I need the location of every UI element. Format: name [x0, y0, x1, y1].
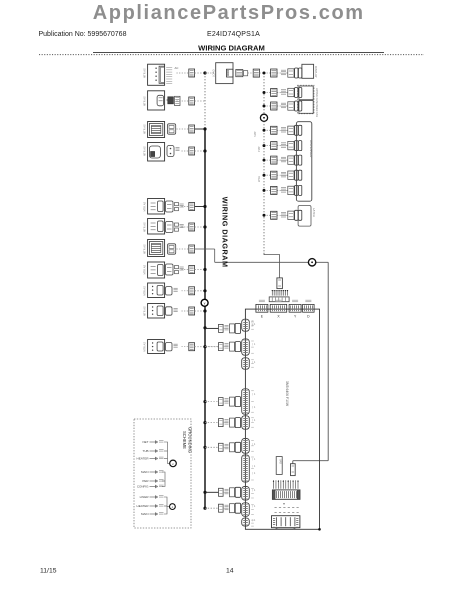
connector: board edge header P10	[242, 518, 254, 526]
component: fan module lower	[299, 101, 319, 118]
svg-text:MTR AS: MTR AS	[143, 306, 147, 316]
svg-text:3M5 6406 F10W: 3M5 6406 F10W	[285, 381, 289, 407]
svg-text:MTR AS: MTR AS	[143, 202, 147, 212]
wire: dispenser motor to left bus	[195, 206, 205, 208]
svg-text:WIRING DIAGRAM: WIRING DIAGRAM	[198, 43, 265, 52]
net labels beside right bus	[253, 131, 261, 182]
ground lead: CONFIG	[137, 485, 164, 489]
svg-text:Publication No: 5995670768: Publication No: 5995670768	[39, 31, 127, 38]
component: fuse (right)	[291, 464, 296, 476]
component: diverter motor	[143, 340, 178, 354]
connector: board edge header P8	[242, 487, 254, 501]
component: pump cluster box	[296, 122, 312, 202]
model number E24ID74QPS1A	[207, 31, 260, 38]
connector chain: sump pump motor	[271, 125, 302, 135]
wire: heater relay to left bus	[195, 248, 215, 250]
wire: vent assembly to left bus	[195, 226, 205, 228]
terminal for vent assembly	[189, 223, 195, 231]
connector cluster: signal harness	[219, 503, 241, 513]
wire: right bus to door latch unit	[264, 214, 288, 216]
wire: left bus to pressure sensor	[205, 422, 219, 424]
connector chain: display harness	[271, 68, 302, 78]
ground lead: PER	[142, 479, 163, 483]
wire: door switch to left bus	[195, 100, 205, 102]
terminal for latch assembly	[189, 147, 195, 155]
connector: board edge header P3	[242, 358, 254, 369]
title WIRING DIAGRAM	[198, 43, 265, 52]
connector: membrane pins	[273, 480, 299, 489]
wire: vent assembly lead	[182, 226, 189, 228]
svg-text:DISPENSER: DISPENSER	[309, 140, 313, 158]
component: main control board outline	[245, 309, 319, 529]
wire: turbidity sensor to left bus	[195, 269, 205, 271]
connector chain: condensate pump	[271, 101, 302, 111]
svg-text:MTR AS: MTR AS	[143, 342, 147, 352]
footer page date 11/15	[40, 568, 57, 575]
connector cluster: pressure sensor	[219, 418, 241, 428]
connector chain: drying fan	[271, 88, 302, 98]
wire: power cord assembly to left bus	[195, 72, 205, 74]
wire: right bus to drying fan	[264, 92, 288, 94]
wire: right bus to dispenser unit	[264, 189, 288, 191]
svg-text:14: 14	[226, 568, 234, 575]
connector cluster: flow meter	[219, 487, 241, 497]
connector: board edge header P2	[242, 339, 254, 355]
connector: board top header Y	[289, 300, 301, 318]
wire: left main bus (solid)	[204, 129, 206, 509]
label: vertical WIRING DIAGRAM	[221, 197, 230, 268]
component: varistor (left)	[276, 457, 282, 475]
svg-text:AppliancePartsPros.com: AppliancePartsPros.com	[93, 2, 365, 24]
terminal for turbidity sensor	[189, 266, 195, 274]
node: circle connector on long run	[308, 259, 315, 266]
node: circle connector on left bus	[201, 299, 208, 306]
terminal for inlet valve	[189, 307, 195, 315]
wire: terminal to right bus	[260, 72, 265, 74]
wire: heater relay lead	[177, 248, 189, 250]
grounding scheme box	[134, 419, 191, 528]
top dotted rule	[39, 54, 424, 56]
title underline	[93, 51, 384, 53]
connector: board edge header P1	[242, 319, 254, 331]
label: board left edge text	[251, 320, 255, 327]
wire: left bus to load box	[205, 72, 216, 74]
wire: left bus dashed upper segment	[204, 73, 206, 129]
terminal for heater relay	[189, 245, 195, 253]
ground lead: HEATER	[137, 504, 164, 508]
terminal for dispenser motor	[189, 203, 195, 211]
ground bus upper group	[162, 442, 170, 487]
connector: terminal strip above board	[269, 297, 289, 302]
svg-text:MAIN: MAIN	[141, 512, 149, 516]
wire: latch assembly lead	[182, 150, 189, 152]
component: vent assembly	[143, 219, 184, 235]
svg-text:MTR AS: MTR AS	[143, 124, 147, 134]
connector: board edge header P7	[242, 455, 254, 482]
svg-text:LATCH: LATCH	[312, 208, 316, 217]
wire: diverter motor to left bus	[195, 346, 219, 348]
ground lead: HEATER	[137, 457, 164, 461]
svg-text:LOWER FAN: LOWER FAN	[315, 102, 319, 117]
svg-text:MTR AS: MTR AS	[143, 96, 147, 106]
wire: dashed stubs	[275, 503, 299, 512]
component: main relay	[143, 122, 176, 138]
component: load box (junction box)	[211, 63, 233, 84]
footer page number 14	[226, 568, 234, 575]
wire: left bus to sensor harness	[205, 401, 219, 403]
svg-text:MTR AS: MTR AS	[143, 286, 147, 296]
svg-text:CONFIG: CONFIG	[137, 485, 149, 489]
svg-text:PER: PER	[142, 479, 149, 483]
wire: right bus to sump pump motor	[264, 129, 288, 131]
wire: drain valve lead	[182, 290, 189, 292]
svg-text:HEATER: HEATER	[137, 504, 150, 508]
svg-text:TUB: TUB	[143, 449, 149, 453]
terminal for drain valve	[189, 287, 195, 295]
component: door latch box	[298, 206, 316, 227]
connector: board top header E	[256, 300, 268, 318]
node: circle connector on right bus	[260, 114, 267, 121]
wire: outer loop bottom into board	[293, 461, 328, 464]
connector chain: water softener	[271, 170, 302, 180]
connector: board top header D	[303, 300, 315, 318]
wire: main relay to left bus	[195, 128, 205, 130]
component: inlet valve	[143, 304, 178, 319]
wire: left bus to thermistor	[205, 446, 219, 448]
terminal for power cord assembly	[189, 69, 195, 77]
connector chain: door latch unit	[271, 210, 302, 220]
svg-text:11/15: 11/15	[40, 568, 57, 575]
junction dots on left bus	[203, 71, 206, 509]
publication number	[39, 31, 127, 38]
terminal for diverter motor	[189, 343, 195, 351]
ground lead: MAIN	[141, 512, 164, 516]
ground node circle upper	[170, 460, 177, 467]
junction: board bottom-right corner	[318, 528, 321, 531]
svg-text:GROUNDING: GROUNDING	[188, 427, 193, 453]
component: power cord assembly	[143, 64, 179, 85]
connector: board edge header P4	[242, 389, 254, 414]
component: heater relay	[143, 240, 176, 257]
ground lead: NET	[143, 440, 164, 444]
connector cluster: sensor harness	[219, 397, 241, 407]
wire: inlet valve to left bus	[195, 310, 205, 312]
wire: right bus to wash pump motor	[264, 145, 288, 147]
ground lead: LINER	[140, 495, 164, 499]
component: line filter fuse F1	[277, 278, 283, 289]
svg-text:HEATER: HEATER	[137, 457, 150, 461]
svg-text:SCHEME: SCHEME	[182, 431, 187, 449]
svg-text:WSH: WSH	[257, 176, 261, 182]
wire: left bus to flow meter	[205, 491, 219, 493]
svg-text:MTR AS: MTR AS	[143, 146, 147, 156]
component: door switch	[143, 91, 180, 110]
connector: board edge header P9	[242, 503, 254, 517]
wire: right bus to condensate pump	[264, 105, 288, 107]
label: board vertical text	[285, 381, 289, 407]
wire: main relay lead	[177, 128, 189, 130]
wire: door switch lead	[177, 100, 189, 102]
wire: left bus to board feed L	[205, 327, 219, 329]
component: turbidity sensor	[143, 262, 184, 278]
component: latch assembly	[143, 143, 180, 162]
connector: pin fan	[272, 290, 288, 296]
connector: membrane header block	[272, 490, 300, 499]
connector: board edge header P5	[242, 416, 254, 429]
wire: turbidity sensor lead	[182, 269, 189, 271]
label: GROUNDING SCHEME	[182, 427, 192, 453]
svg-text:DISPLAY: DISPLAY	[314, 66, 318, 78]
svg-text:MTR AS: MTR AS	[143, 68, 147, 78]
ground lead: MAIN	[141, 470, 164, 474]
svg-text:MTR AS: MTR AS	[143, 222, 147, 232]
svg-text:MAIN: MAIN	[141, 470, 149, 474]
terminal: right of load box	[253, 69, 259, 77]
wire: left bus to signal harness	[205, 507, 219, 509]
svg-text:WIRING DIAGRAM: WIRING DIAGRAM	[221, 197, 230, 268]
component: fan module pair (dashed enclosure)	[297, 85, 314, 114]
svg-text:AC: AC	[175, 66, 179, 70]
connector cluster: thermistor	[219, 442, 241, 452]
wire: power cord assembly lead	[177, 72, 189, 74]
wire: drain valve to left bus	[195, 290, 205, 292]
svg-text:E24ID74QPS1A: E24ID74QPS1A	[207, 31, 260, 38]
connector chain: heat pump	[271, 155, 302, 165]
connector: board edge header P6	[242, 439, 254, 454]
junction dots on right bus	[263, 72, 266, 217]
svg-text:PMP: PMP	[257, 146, 261, 152]
wire: right bus to heat pump	[264, 159, 288, 161]
component: dispenser motor	[143, 199, 184, 215]
component: fan module upper	[299, 86, 319, 103]
wire: left bus to board feed N	[205, 346, 219, 348]
svg-text:NET: NET	[143, 440, 149, 444]
ground lead: TUB	[143, 449, 164, 453]
connector: bottom edge connector	[272, 516, 300, 530]
wire: load box to terminal	[248, 72, 254, 74]
wire: diverter motor lead	[182, 346, 189, 348]
wire: feed from relay row down to long run	[214, 249, 216, 262]
wire: dispenser motor lead	[182, 206, 189, 208]
wire: elbow from right bus down to fuse	[264, 253, 280, 278]
wire: long horizontal run to outer loop	[215, 261, 329, 263]
connector: board top header X	[270, 300, 287, 318]
wire: outer loop right side down	[327, 262, 329, 460]
component: display module box	[302, 64, 318, 78]
terminal for main relay	[189, 125, 195, 133]
wire: inlet valve lead	[182, 310, 189, 312]
watermark AppliancePartsPros.com	[93, 2, 365, 24]
svg-text:UPPER FAN: UPPER FAN	[315, 88, 319, 103]
svg-text:MTR AS: MTR AS	[143, 265, 147, 275]
svg-text:SMP: SMP	[253, 131, 257, 137]
svg-text:VAR: VAR	[279, 459, 283, 464]
svg-text:LINER: LINER	[140, 495, 150, 499]
ground node circle lower	[170, 504, 176, 510]
component: drain valve	[143, 283, 178, 298]
connector chain: dispenser unit	[271, 185, 302, 195]
connector cluster: board feed N	[219, 342, 241, 352]
wire: right bus to display harness	[264, 72, 288, 74]
pin number labels	[253, 322, 256, 522]
wire: right bus to water softener	[264, 174, 288, 176]
terminal for door switch	[189, 97, 195, 105]
ground bus lower group	[164, 497, 170, 514]
svg-text:MTR AS: MTR AS	[143, 244, 147, 254]
connector: load box plug	[236, 70, 248, 77]
connector cluster: board feed L	[219, 323, 241, 333]
wire: right bus dashed	[263, 73, 265, 253]
wire: latch assembly to left bus	[195, 150, 205, 152]
connector chain: wash pump motor	[271, 141, 302, 151]
